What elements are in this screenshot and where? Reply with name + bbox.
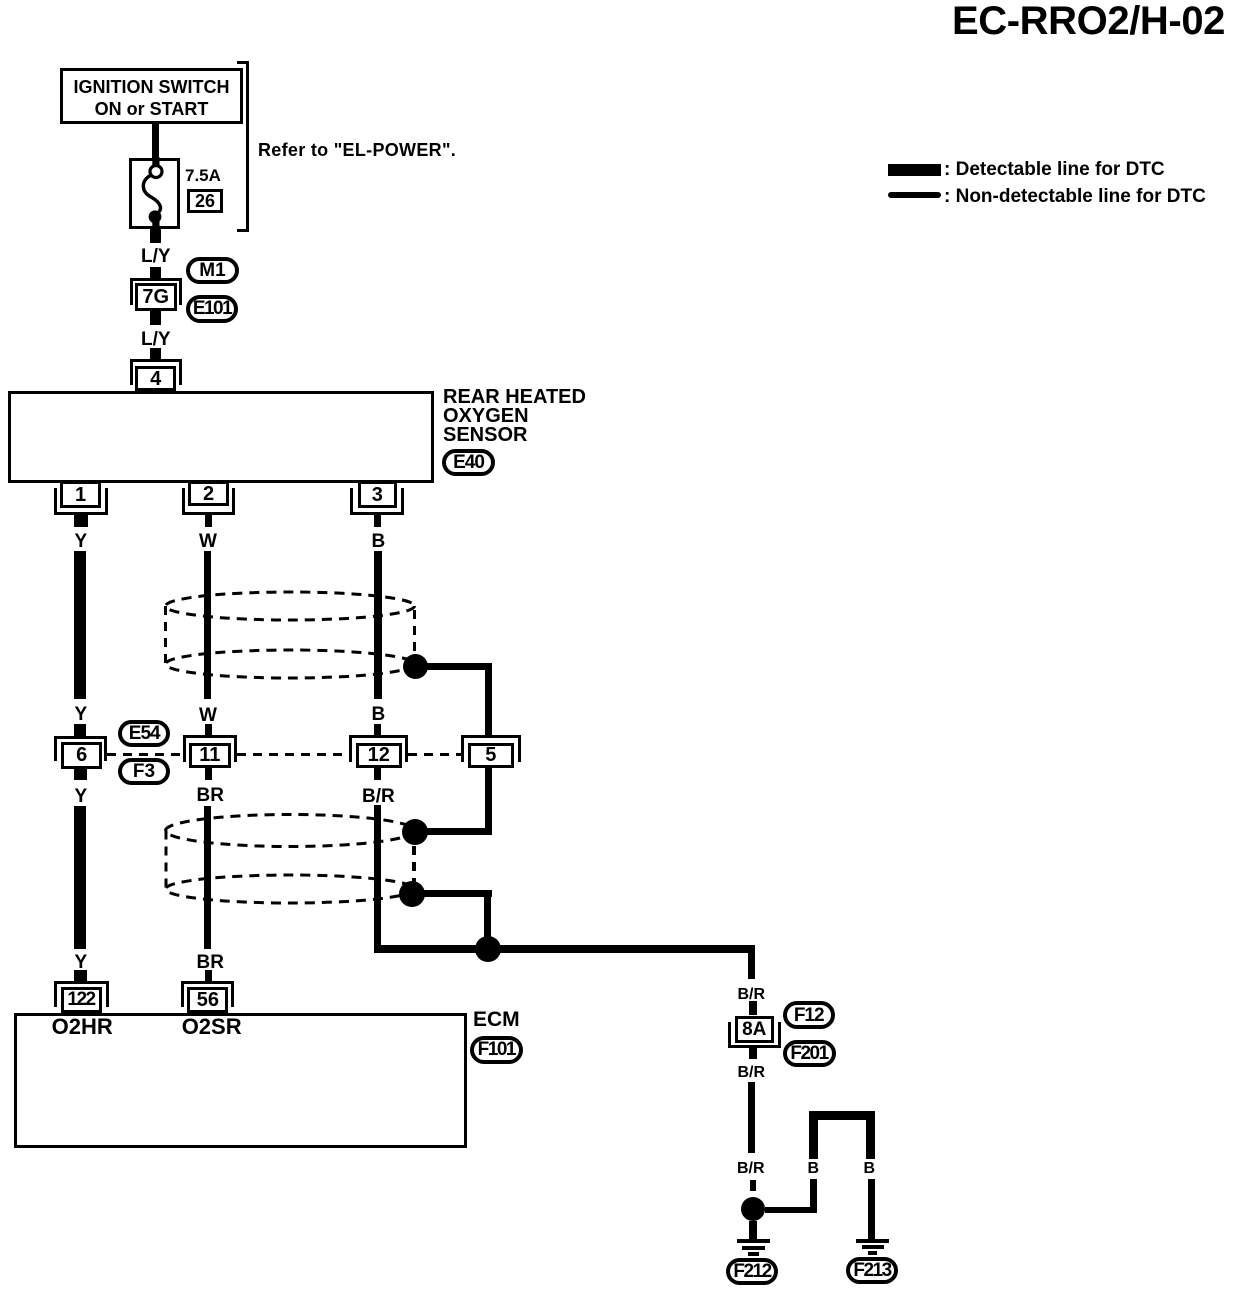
wire Y thick: [74, 551, 87, 699]
connector 11: [183, 735, 237, 761]
wire label B/R: [362, 787, 395, 806]
ECM box: [14, 1013, 467, 1149]
wire W: [204, 551, 211, 699]
connector 4: [130, 359, 182, 385]
ignition switch box: [60, 68, 243, 124]
junction dot shield 2 lower: [399, 881, 425, 907]
wire 8A down: [748, 1082, 756, 1153]
refer to EL-POWER text: [258, 141, 456, 159]
stub below connector 12: [374, 768, 381, 780]
wire shield2 dot1 to right: [415, 828, 492, 835]
connector 6: [54, 736, 107, 762]
stub below 7G: [150, 311, 162, 326]
legend non-detectable text: [944, 187, 1206, 206]
ground 2 symbol: [856, 1239, 890, 1243]
wire Y thick lower: [74, 806, 87, 949]
ground 1 stub: [749, 1221, 757, 1239]
stub above 122: [74, 970, 87, 981]
shield cylinder 1: [155, 580, 435, 690]
wire label BR above 56: [197, 953, 224, 972]
wire label Y: [75, 532, 88, 551]
ground ref F212 oval: [726, 1258, 778, 1286]
dashed link between shield dots: [412, 846, 416, 882]
wire label B above connector 12: [372, 705, 386, 724]
wire label Y above 122: [75, 953, 88, 972]
stub above connector 4: [150, 348, 162, 359]
wire B/R lower: [374, 805, 382, 953]
junction dot shield 2 upper: [402, 819, 428, 845]
connector 122: [54, 981, 109, 1007]
connector ref F101 oval: [470, 1036, 523, 1065]
connector 1: [54, 488, 108, 515]
wire label B/R bottom: [737, 1161, 765, 1177]
wire label B second: [864, 1161, 876, 1177]
wire BR lower: [204, 806, 211, 949]
stub above ground dot: [750, 1180, 757, 1191]
fuse symbol: [125, 150, 185, 242]
title EC-RRO2/H-02: [952, 1, 1225, 41]
connector ref E101 oval: [186, 295, 238, 323]
stub below connector 5: [485, 768, 492, 780]
ground ref F213 oval: [846, 1257, 898, 1285]
ECM label: [473, 1009, 520, 1030]
stub below connector 1: [74, 515, 88, 527]
legend detectable text: [944, 160, 1165, 179]
wire label B first: [808, 1161, 820, 1177]
wire shield2 dot2 to right: [412, 890, 492, 897]
junction dot shield 1: [403, 654, 428, 679]
wire label B: [372, 532, 386, 551]
wire label Y above connector 6: [75, 705, 88, 724]
wire ignition to fuse: [152, 124, 159, 158]
stub below connector 2: [205, 515, 212, 527]
wire up leg to B: [810, 1179, 817, 1213]
connector ref E54 oval: [118, 720, 170, 747]
legend detectable thick bar: [888, 164, 941, 176]
connector 56: [181, 981, 234, 1007]
ground junction dot: [741, 1197, 766, 1222]
ground 1 symbol: [737, 1239, 771, 1243]
legend non-detectable thin bar: [888, 192, 941, 198]
junction dot on main run: [475, 936, 501, 962]
stub below 8A: [749, 1048, 757, 1059]
wire label B/R above 8A: [738, 987, 766, 1003]
connector ref F3 oval: [118, 758, 170, 785]
connector 12: [349, 735, 408, 761]
wire from shield1 dot to right: [415, 663, 492, 671]
stub below connector 11: [205, 768, 212, 780]
wire label W: [199, 532, 217, 551]
wire dot to right: [765, 1207, 815, 1213]
wire label BR: [197, 786, 224, 805]
connector ref F201 oval: [783, 1040, 836, 1068]
connector 2: [182, 488, 236, 515]
connector ref F12 oval: [783, 1001, 835, 1029]
wire B down to ground 2: [868, 1179, 875, 1239]
fuse number 26 box: [187, 189, 223, 213]
rear heated oxygen sensor box: [8, 391, 434, 483]
main horizontal wire run: [374, 945, 756, 953]
stub above 8A: [749, 1001, 757, 1015]
stub above connector 6: [74, 724, 86, 736]
dashed line connector row seg 1: [107, 753, 183, 756]
wire label B/R below 8A: [738, 1065, 766, 1081]
connector ref E40 oval: [442, 449, 495, 476]
dashed line connector row seg 2: [237, 753, 350, 756]
n-wire top bar: [809, 1111, 875, 1120]
wire label W above connector 11: [199, 706, 217, 725]
wire label L/Y: [141, 330, 171, 349]
pin label O2HR: [52, 1016, 113, 1038]
connector 3: [350, 488, 404, 515]
n-wire left leg: [809, 1120, 818, 1159]
wire down to connector 5: [485, 663, 492, 736]
refer bracket: [246, 61, 249, 232]
stub below connector 3: [374, 515, 382, 527]
wire connector 5 down to shield 2: [485, 780, 492, 836]
fuse 7.5A box: [129, 158, 180, 229]
vertical leg to 8A: [748, 945, 756, 979]
connector 7G: [130, 278, 182, 305]
stub below connector 6: [74, 769, 87, 781]
sensor label text: [443, 388, 586, 446]
n-wire right leg: [866, 1120, 875, 1159]
connector 8A: [728, 1022, 781, 1048]
wire B: [374, 551, 382, 699]
stub above connector 12: [374, 724, 381, 735]
wire down to main run: [484, 890, 491, 952]
wire label L/Y: [141, 247, 171, 266]
stub below fuse: [150, 229, 162, 243]
shield cylinder 2: [155, 805, 435, 915]
fuse value 7.5A: [185, 167, 221, 184]
dashed line connector row seg 3: [408, 753, 461, 756]
stub above 7G: [150, 267, 162, 279]
stub above connector 11: [205, 724, 212, 735]
connector ref M1 oval: [186, 257, 239, 285]
wire label Y below connector 6: [75, 787, 88, 806]
pin label O2SR: [182, 1016, 242, 1038]
stub above 56: [205, 970, 212, 981]
connector 5: [461, 735, 521, 761]
